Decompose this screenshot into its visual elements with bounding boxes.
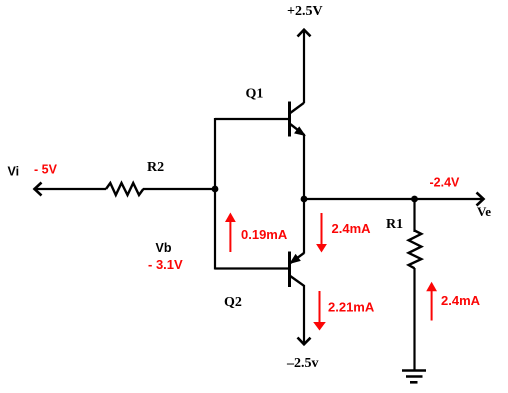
wire: node to R1 — [413, 199, 415, 232]
red current arrow 2.21mA (down) — [313, 291, 326, 331]
svg-text:2.4mA: 2.4mA — [441, 293, 481, 308]
svg-text:- 3.1V: - 3.1V — [148, 257, 183, 272]
svg-text:Ve: Ve — [477, 204, 491, 219]
svg-text:R1: R1 — [386, 217, 403, 232]
input left arrowhead — [35, 183, 42, 196]
svg-text:Vi: Vi — [8, 165, 20, 179]
-2.5v supply down-arrowhead — [298, 338, 311, 345]
svg-text:Q2: Q2 — [224, 295, 242, 310]
wire: input to R2 — [34, 188, 107, 190]
wire: base bus to Q2 base — [215, 267, 289, 269]
wire: Q1 base to base bus — [215, 118, 289, 120]
svg-text:2.21mA: 2.21mA — [328, 300, 375, 315]
resistor R1 — [409, 231, 422, 269]
wire: R1 to ground — [413, 268, 415, 370]
junction: base node — [212, 186, 219, 193]
svg-text:Vb: Vb — [156, 241, 172, 255]
junction: output node — [301, 196, 308, 203]
svg-text:-2.4V: -2.4V — [430, 176, 461, 190]
svg-text:0.19mA: 0.19mA — [241, 227, 288, 242]
svg-text:- 5V: - 5V — [34, 162, 58, 176]
resistor R2 — [106, 183, 143, 195]
wire: output node to Ve — [304, 198, 482, 200]
svg-text:R2: R2 — [147, 160, 164, 175]
red current arrow 2.4mA (down, at output) — [316, 213, 327, 253]
svg-text:Q1: Q1 — [246, 87, 264, 102]
svg-text:–2.5v: –2.5v — [286, 356, 319, 371]
wire: Q1 emitter to output node — [303, 134, 305, 199]
ground — [402, 371, 426, 383]
junction: R1 top node — [411, 196, 418, 203]
red current arrow 2.4mA (up, at R1) — [426, 282, 437, 321]
svg-text:2.4mA: 2.4mA — [332, 221, 372, 236]
wire: Q2 collector to -2.5v supply — [303, 285, 305, 344]
svg-text:+2.5V: +2.5V — [287, 4, 323, 19]
output right arrowhead — [477, 193, 484, 206]
transistor Q1 (NPN) — [290, 102, 305, 137]
wire: base bus vertical — [214, 118, 216, 270]
transistor Q2 (PNP) — [290, 252, 305, 288]
red current arrow 0.19mA (up) — [225, 213, 236, 253]
wire: R2 to base bus junction — [143, 188, 215, 190]
wire: output node to Q2 emitter — [303, 199, 305, 254]
+2.5V supply up-arrow — [298, 30, 311, 37]
wire: Q1 collector to +2.5V supply — [303, 31, 305, 104]
